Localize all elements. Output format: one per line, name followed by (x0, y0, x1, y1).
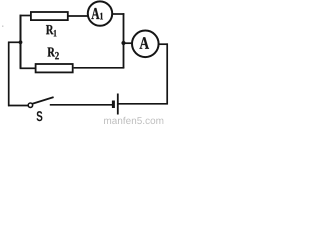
ammeter A (132, 31, 159, 58)
label R2 (48, 48, 55, 57)
wire bottom right (battery to right corner) (119, 103, 168, 105)
wire R1 to A1 (69, 15, 89, 17)
battery negative plate (short thick) (112, 101, 115, 109)
wire left-branch vertical (node to R1/R2 split) (20, 15, 22, 69)
switch S pivot (28, 103, 32, 107)
wire junction to ammeter A (124, 42, 133, 44)
wire R2 left lead (20, 67, 36, 69)
wire right vertical (166, 43, 168, 104)
junction node left (19, 40, 23, 44)
wire A right lead (159, 43, 168, 45)
battery positive plate (long) (117, 94, 119, 115)
watermark manfen5.com (104, 117, 163, 124)
resistor R1 (31, 12, 68, 20)
ammeter A1 (88, 1, 112, 25)
junction node right (121, 41, 125, 45)
wire left outer vertical (8, 42, 10, 107)
wire right-branch vertical (A1/R2 merge) (123, 13, 125, 68)
resistor R2 (36, 64, 73, 72)
label R1 (46, 25, 54, 34)
wire junction horizontal (outer to branch node) (8, 41, 21, 43)
wire battery to switch (50, 104, 112, 106)
wire R2 to right vertical (74, 67, 125, 69)
switch S blade (32, 97, 54, 104)
wire R1 left lead (20, 15, 31, 17)
wire A1 right lead (112, 13, 124, 15)
wire bottom left (corner to switch pivot) (8, 105, 28, 107)
label S (37, 111, 43, 121)
